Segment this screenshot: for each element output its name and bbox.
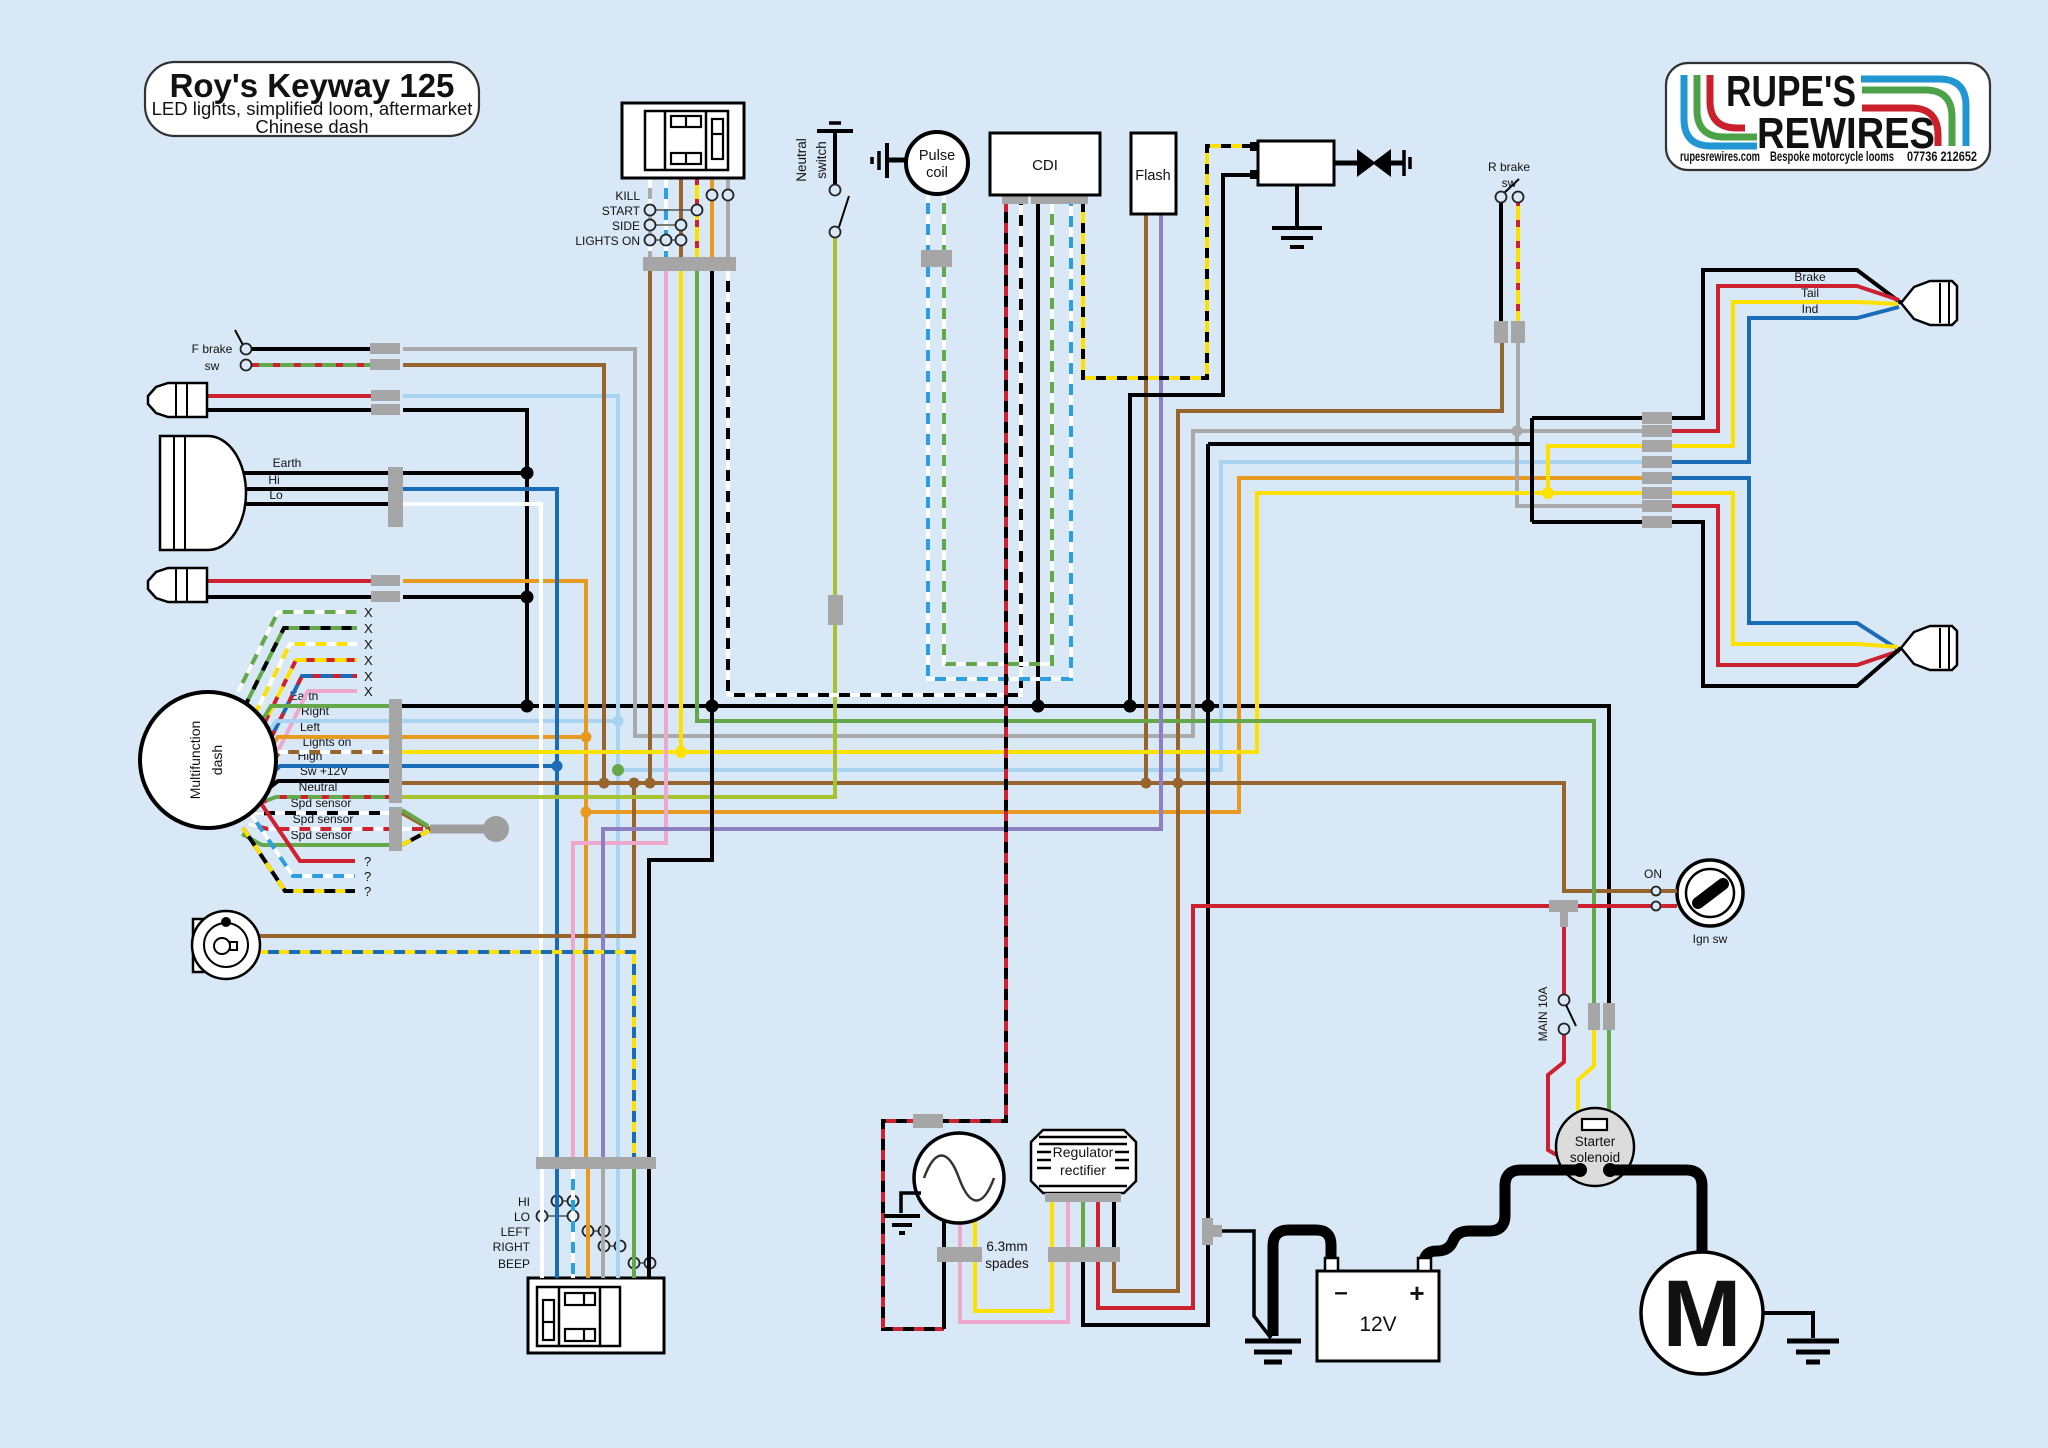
wire: indicator1 black stub [205,408,371,412]
connector: F brake sw pair [370,343,400,354]
wire: rear bottom light black [1646,522,1901,686]
wire: switched +12V brown rail (dash to ignition switch ON) [401,783,1656,891]
front indicator 2 [148,568,207,602]
svg-text:dash: dash [209,745,225,775]
wire: pulse coil green/white dashed to CDI [944,193,1052,664]
wire: rectifier black pin to brown charge wire [1112,1202,1116,1247]
svg-text:+: + [1409,1278,1424,1308]
rear bottom light [1901,626,1957,670]
wire: red from T to MAIN fuse [1562,912,1566,995]
wire: right switch orange upper [710,178,714,257]
dash Neutral stub green/red [260,797,389,803]
svg-text:CDI: CDI [1032,157,1058,174]
wire: ignition coil black to earth rail [1130,175,1258,706]
connector: dash speed sensor [389,807,402,851]
motor ground [1763,1313,1813,1338]
wire: left-turn rail orange to rear connector row5 [586,478,1646,812]
wire: indicator2 black stub [205,595,371,599]
connector: indicator1 pair [371,390,400,401]
junction dot yellow tail rail [1542,487,1554,499]
wire: dash High blue stub [401,764,557,768]
junction dot lights-on yellow [675,746,687,758]
connector: rear 8-way [1642,412,1672,424]
wire: rear connector row1 black [1532,416,1646,420]
dash Lights-on stub brown/white [266,752,389,770]
wire: dash Neutral olive to neutral switch [401,236,835,797]
wire: solenoid right green below connector [1607,1030,1611,1121]
horn [193,919,203,972]
wire: main black negative trunk to battery T and regulator [1083,444,1208,1325]
svg-text:rectifier: rectifier [1060,1162,1106,1178]
svg-text:KILL: KILL [615,189,640,203]
ignition switch [1677,860,1743,926]
svg-text:X: X [364,669,373,684]
wire: rear yellow branch to row3 [1548,446,1646,493]
neutral switch [833,131,837,184]
svg-text:6.3mm: 6.3mm [986,1239,1027,1254]
wire: rear top light blue [1646,307,1899,462]
svg-text:F brake: F brake [192,342,233,356]
svg-text:BEEP: BEEP [498,1257,530,1271]
thin ground wire from T [1222,1231,1271,1338]
wire: R brake sw grey drop [1516,343,1520,431]
wire: rear top light yellow [1646,302,1898,446]
wire: flash unit brown drop [1144,214,1148,786]
svg-text:X: X [364,637,373,652]
svg-text:Chinese dash: Chinese dash [255,116,368,137]
svg-text:X: X [364,653,373,668]
wire: rectifier red pin [1096,1202,1100,1247]
wire: headlight earth to junction column [403,471,527,475]
wire: alternator black drop [942,1213,946,1329]
dash Left stub orange [263,737,389,760]
flash relay [1131,133,1176,214]
svg-text:LIGHTS ON: LIGHTS ON [575,234,640,248]
svg-text:Brake: Brake [1794,270,1826,284]
wire: right switch blue/white dashed [664,178,668,257]
svg-text:START: START [602,204,641,218]
svg-text:?: ? [364,884,371,899]
wire: horn brown [258,783,634,936]
wire: indicator2 red stub [205,579,371,583]
junction dots left rail orange [581,732,592,743]
wire: horn blue/yellow dashed [258,952,634,1157]
ignition coil [1258,141,1334,185]
svg-text:Regulator: Regulator [1053,1144,1114,1160]
pulse coil [888,158,908,163]
starter solenoid [1577,1113,1580,1125]
svg-text:Hi: Hi [268,473,279,487]
ignition switch wires into body [1661,889,1677,893]
svg-text:Starter: Starter [1575,1134,1616,1149]
connector: red tee at ignition feed [1549,900,1578,912]
logo Rupes Rewires [1666,63,1990,170]
svg-text:Bespoke motorcycle looms: Bespoke motorcycle looms [1770,148,1894,164]
F brake switch [235,330,243,345]
wire: pulse coil blue/white dashed to CDI [928,193,1071,679]
wire: right switch yellow drop [679,271,683,752]
wire: flash purple to left switch column [603,214,1161,1157]
wire: CDI black/red dashed loop to alternator [883,202,1006,1329]
battery negative cable to ground [1273,1230,1331,1336]
dash X wires [238,612,357,692]
junction dot right rail green tee [612,764,624,776]
wire: rear bottom light red [1646,506,1899,665]
svg-text:SIDE: SIDE [612,219,640,233]
connector: CDI left [1002,195,1028,204]
wire: right switch brown upper [679,178,683,257]
svg-text:Neutral: Neutral [794,138,809,182]
alternator ground [901,1193,921,1213]
spark plug symbol [1334,161,1358,166]
connector: R brake pair [1494,321,1508,343]
starter motor [1641,1252,1763,1374]
dash Right stub light blue [258,721,389,748]
speed sensor probe [402,813,430,829]
left switch contact rows [557,1200,573,1202]
svg-text:rupesrewires.com: rupesrewires.com [1680,148,1760,164]
junction dot grey brake rail [1512,426,1523,437]
wire: R brake brown to +12V rail and down to rectifier [1114,343,1502,1291]
wire: right switch black to earth rail and left switch [649,271,712,1157]
wire: brake switch grey rail F-brake to R-brake to rear row2 [403,349,1646,736]
wire: rear top light black Brake [1646,270,1901,418]
connector: CDI right [1031,195,1088,204]
wire: rear bottom light yellow [1646,493,1898,647]
wire: right switch black/white dashed to CDI [728,202,1021,695]
svg-text:12V: 12V [1359,1313,1396,1336]
wire: F brake sw green/red dashed [252,363,370,367]
junction dots front earth column [521,467,534,480]
svg-text:Ign sw: Ign sw [1693,932,1728,946]
svg-text:HI: HI [518,1195,530,1209]
wire: alternator pink to rectifier pink [960,1202,1068,1322]
wire: red main feed from regulator to ignition switch [1098,906,1656,1308]
connector: alternator spades [937,1247,982,1262]
svg-text:solenoid: solenoid [1570,1150,1620,1165]
wire: R brake sw black [1499,199,1503,321]
wire: headlight Hi black stub [242,487,388,491]
CDI unit [990,133,1100,195]
wire: rear black U link [1530,418,1534,522]
dash Spd sensor stubs [254,813,389,814]
connector: solenoid feed pair [1588,1003,1600,1030]
connector: CDI black/red loop inline [913,1114,943,1128]
wire: rear harness black from earth rail to rear connector [1208,442,1532,446]
left handlebar switch block [528,1278,664,1353]
svg-text:–: – [1334,1279,1347,1306]
R brake switch [1503,179,1519,194]
connector: right switch bar [643,257,736,271]
wire: rear connector row8 black [1532,520,1646,524]
wire: front indicator 1 light blue (right turn rail) [403,396,618,1157]
ignition coil ground [1295,185,1299,228]
battery ground symbol [1245,1339,1301,1344]
svg-text:spades: spades [985,1256,1029,1271]
svg-text:LO: LO [514,1210,530,1224]
wire: right-turn rail light blue to rear connector row4 [618,462,1646,770]
wire: right switch yellow/red dashed upper [695,178,699,257]
right handlebar switch block [622,103,744,178]
svg-text:?: ? [364,869,371,884]
svg-text:Tail: Tail [1801,286,1819,300]
svg-text:Ind: Ind [1802,302,1819,316]
wire: rear top light red [1646,286,1899,431]
wire: right switch kill grey/white dashed [648,178,652,257]
wire: red from MAIN fuse to solenoid terminal [1548,1034,1579,1168]
connector: pulse coil wires [921,250,952,267]
wire: dash Left orange stub [401,735,586,739]
wire: CDI yellow/black dashed to ignition coil [1083,146,1258,378]
svg-text:switch: switch [814,141,829,179]
svg-text:RIGHT: RIGHT [493,1240,531,1254]
left switch column wires below bar [540,1169,544,1278]
wire: front indicator 2 black earth [403,595,527,599]
dash Sw+12V stub black [264,781,389,792]
svg-text:Lo: Lo [269,488,283,502]
svg-text:ON: ON [1644,867,1662,881]
wire: right switch grey upper [726,178,730,257]
regulator rectifier [1031,1130,1136,1193]
solenoid terminals [1573,1163,1587,1177]
wire: front indicator 1 black earth [403,410,527,706]
dash question wires [258,799,355,861]
front indicator 1 [148,383,207,417]
wire: indicator1 red stub [205,394,371,398]
wire: dash Lights-on yellow rail to rear tail feed [401,493,1646,752]
connector: rectifier spades [1048,1247,1120,1262]
battery [1317,1271,1439,1361]
svg-text:07736 212652: 07736 212652 [1907,148,1977,164]
starter motor cable [1610,1170,1702,1253]
connector: left switch bar [536,1157,656,1169]
alternator [914,1133,1004,1223]
svg-text:Multifunction: Multifunction [187,721,203,800]
svg-text:MAIN 10A: MAIN 10A [1536,987,1550,1042]
wire: alternator yellow to rectifier yellow [975,1202,1052,1311]
title box [145,62,479,136]
dash Earth green stub [252,706,389,737]
wire: headlight Lo black stub [240,502,388,506]
wire: grey branch down to rear row7 [1517,431,1646,506]
MAIN 10A fuse [1559,995,1570,1006]
wire: headlight Lo white [403,504,541,1157]
svg-text:X: X [364,621,373,636]
wire: rear bottom light blue [1646,478,1899,650]
svg-text:sw: sw [205,359,220,373]
right switch contact rows [650,209,697,211]
wire: R brake sw yellow/red dashed [1516,199,1520,321]
wire: CDI black to earth rail [1036,202,1040,706]
junction dots on earth rail [521,700,534,713]
svg-text:Flash: Flash [1135,168,1170,184]
multifunction dash circle [140,692,276,828]
junction dots +12V brown rail [599,778,610,789]
junction dot high beam [552,761,563,772]
wire: right switch green to starter solenoid left connector [697,271,1594,1003]
headlight [160,436,246,550]
svg-text:X: X [364,605,373,620]
svg-text:sw: sw [1502,176,1517,190]
wire: headlight Hi dark blue [403,489,557,1157]
svg-text:X: X [364,684,373,699]
junction dot dash Right tee [613,716,624,727]
battery positive cable [1424,1170,1580,1263]
svg-text:M: M [1662,1261,1741,1367]
svg-text:?: ? [364,854,371,869]
svg-text:coil: coil [926,165,948,181]
svg-text:Earth: Earth [273,456,302,470]
wire: rectifier green pin to black trunk [1081,1202,1085,1247]
wire: front indicator 2 orange (left turn rail) [403,581,586,1157]
wire: solenoid left yellow below connector [1578,1030,1594,1121]
wire: F brake brown to +12V rail [403,365,604,783]
connector: dash main [389,699,402,803]
connector: indicator2 pair [371,575,400,586]
svg-text:LEFT: LEFT [501,1225,531,1239]
wire: headlight Earth black stub [240,471,388,475]
wire: earth rail black (dash Earth to solenoid right, via connector) [401,706,1609,1003]
connector: headlight block [388,467,403,527]
wire: right switch brown drop [648,271,652,783]
svg-text:R brake: R brake [1488,160,1530,174]
dash High stub blue [266,766,389,780]
svg-text:Pulse: Pulse [919,148,955,164]
wire: dash Right light blue stub [401,719,618,723]
wire: switch pink to left switch column [573,271,666,1157]
wire: F brake sw black [252,347,370,351]
connector: battery T junction [1202,1218,1213,1245]
rear top light [1901,281,1957,325]
connector: neutral switch wire [828,595,843,625]
